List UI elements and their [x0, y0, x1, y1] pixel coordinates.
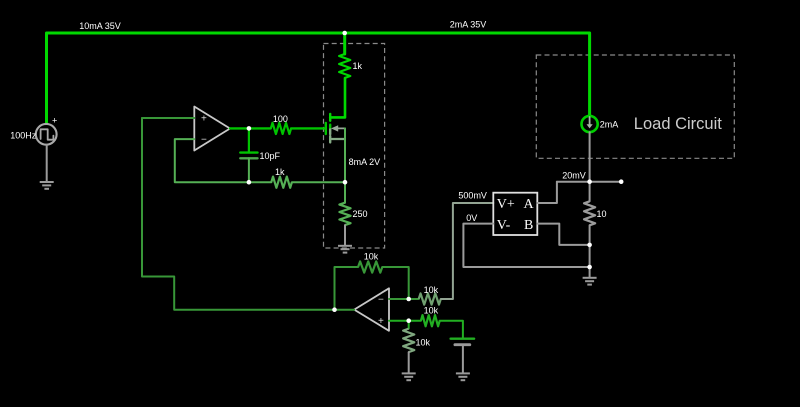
wire R 250 to ground — [344, 225, 346, 245]
label B — [524, 218, 533, 233]
label 10k fb — [364, 252, 379, 262]
wire source to ground — [46, 145, 48, 182]
box current-source subcircuit (dashed) — [324, 44, 385, 249]
svg-text:2mA 35V: 2mA 35V — [450, 19, 487, 29]
svg-text:10: 10 — [597, 209, 607, 219]
svg-text:B: B — [524, 218, 533, 233]
svg-text:+: + — [52, 115, 57, 125]
svg-text:20mV: 20mV — [562, 171, 586, 181]
label 250 — [353, 209, 368, 219]
label V- — [497, 218, 511, 233]
label 1k fb — [275, 167, 285, 177]
svg-text:V+: V+ — [497, 197, 515, 212]
voltage source V1 square-wave glyph — [41, 129, 54, 139]
label A — [524, 197, 535, 212]
wire U1 out to cap — [248, 128, 250, 151]
svg-text:8mA 2V: 8mA 2V — [349, 157, 381, 167]
svg-text:10mA 35V: 10mA 35V — [79, 21, 121, 31]
box meter A/B — [493, 193, 537, 235]
wire to battery — [440, 321, 463, 338]
svg-text:−: − — [378, 295, 384, 306]
resistor R 10 load — [584, 201, 595, 225]
node U2 inverting — [406, 297, 411, 302]
label 8mA 2V — [349, 157, 381, 167]
svg-text:10k: 10k — [416, 338, 431, 348]
resistor R 10k feedback — [358, 261, 382, 272]
node 20mV — [587, 179, 592, 184]
label 2mA 35V — [450, 19, 487, 29]
resistor R 10k to ground — [403, 329, 414, 353]
wire junction to R 10k gnd — [408, 321, 410, 329]
label 10k gnd — [416, 338, 431, 348]
wire MOSFET source down — [344, 128, 346, 202]
box Load Circuit (dashed) — [536, 55, 734, 158]
node MOSFET source — [343, 180, 348, 185]
svg-text:500mV: 500mV — [458, 191, 487, 201]
op-amp U1 triangle — [194, 107, 230, 151]
wire U2 feedback up — [335, 267, 359, 310]
svg-text:+: + — [201, 114, 207, 125]
svg-text:2mA: 2mA — [600, 120, 619, 130]
label + polarity — [52, 115, 57, 125]
label 10k nin — [424, 306, 439, 316]
transistor M1 channel top segment — [329, 114, 331, 121]
transistor M1 channel bottom segment — [329, 136, 331, 142]
label 20mV — [562, 171, 586, 181]
wire terminal A — [537, 182, 557, 203]
svg-text:100Hz: 100Hz — [10, 131, 37, 141]
label 0V — [466, 213, 477, 223]
ground below load — [583, 278, 597, 285]
node B junction — [587, 243, 592, 248]
transistor M1 source lead — [330, 138, 345, 140]
wire current source down — [589, 132, 591, 201]
label 100 — [273, 114, 288, 124]
svg-text:V-: V- — [497, 218, 511, 233]
node rail junction — [342, 31, 347, 36]
resistor R 10k inverting — [419, 293, 441, 304]
wire R 10 to ground — [589, 225, 591, 277]
wire U2 non-inverting input — [389, 320, 421, 322]
wire U2 inverting input — [389, 298, 419, 300]
battery V2 500mV plates — [451, 339, 475, 345]
ground below battery — [456, 373, 470, 380]
label 2mA — [600, 120, 619, 130]
resistor R 250 — [339, 203, 350, 225]
capacitor C1 10pF plates — [240, 153, 257, 159]
label 100Hz — [10, 131, 37, 141]
resistor R 1k feedback — [271, 177, 292, 188]
wire rail to R 1k — [343, 33, 346, 54]
ground below R 10k — [402, 373, 416, 380]
wire R 10k to ground — [408, 352, 410, 372]
label V+ — [497, 197, 515, 212]
wire U1 non-inverting input — [142, 117, 194, 119]
voltage source V1 100Hz circle — [36, 124, 57, 145]
label 10mA 35V — [79, 21, 121, 31]
wire 20mV stub — [557, 181, 621, 183]
resistor R 10k non-inverting — [421, 315, 440, 326]
svg-text:Load Circuit: Load Circuit — [634, 115, 722, 133]
wire terminal V- — [463, 224, 589, 267]
wire U1 inverting input — [175, 139, 271, 182]
resistor R 100 — [271, 123, 291, 134]
wire U1 output — [230, 127, 271, 129]
label 10 — [597, 209, 607, 219]
svg-text:1k: 1k — [353, 61, 363, 71]
svg-text:100: 100 — [273, 114, 288, 124]
svg-text:0V: 0V — [466, 213, 477, 223]
node U2 non-inverting — [406, 318, 411, 323]
transistor M1 gate bar — [325, 123, 327, 134]
wire R 1k to MOSFET drain — [330, 78, 345, 117]
transistor M1 bulk arrow — [331, 125, 345, 131]
wire 35V rail — [47, 33, 590, 123]
node 20mV stub end — [619, 179, 624, 184]
svg-text:+: + — [378, 316, 384, 327]
svg-text:250: 250 — [353, 209, 368, 219]
node ground junction — [587, 265, 592, 270]
op-amp U2 triangle — [354, 288, 389, 331]
current source I1 2mA — [582, 116, 598, 132]
ground below source — [40, 182, 54, 189]
wire feedback net — [142, 118, 335, 310]
wire terminal B — [537, 224, 589, 245]
label 1k — [353, 61, 363, 71]
svg-text:10k: 10k — [424, 306, 439, 316]
resistor R 1k (drain) — [339, 54, 350, 78]
label Load Circuit — [634, 115, 722, 133]
svg-text:A: A — [524, 197, 535, 212]
wire R 1k fb to source node — [292, 181, 345, 183]
ground below R 250 — [338, 246, 352, 253]
transistor M1 channel middle segment — [329, 125, 331, 134]
wire cap to feedback node — [248, 158, 250, 182]
node U1 output — [247, 126, 252, 131]
label 500mV — [458, 191, 487, 201]
svg-text:1k: 1k — [275, 167, 285, 177]
wire to V+ terminal — [441, 203, 494, 299]
wire battery to ground — [462, 345, 464, 373]
svg-text:10k: 10k — [364, 252, 379, 262]
svg-text:10k: 10k — [424, 285, 439, 295]
wire R 100 to gate — [291, 127, 325, 129]
label 10pF — [260, 151, 281, 161]
svg-text:−: − — [201, 135, 207, 146]
label 10k inv — [424, 285, 439, 295]
node U2 output — [332, 307, 337, 312]
wire U2 output — [335, 309, 355, 311]
svg-text:10pF: 10pF — [260, 151, 281, 161]
node cap feedback — [247, 180, 252, 185]
wire R 10k fb to inverting node — [382, 267, 408, 299]
